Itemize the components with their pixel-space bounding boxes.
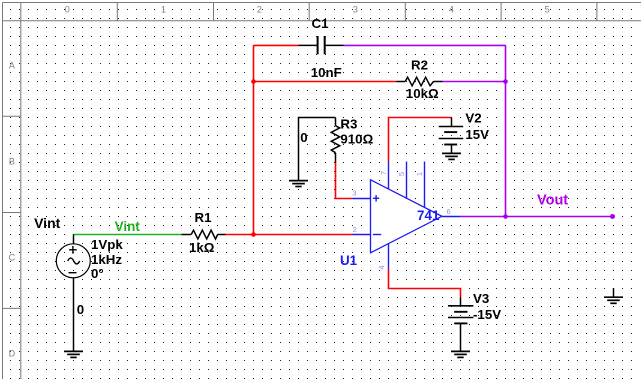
pin 2 lead <box>353 234 371 236</box>
svg-text:Vint: Vint <box>34 215 61 231</box>
svg-text:C1: C1 <box>312 16 330 31</box>
wire: purple output row <box>460 216 613 218</box>
svg-text:3: 3 <box>352 189 356 198</box>
svg-text:741: 741 <box>417 208 440 223</box>
svg-text:V2: V2 <box>465 111 481 126</box>
op-amp minus marker <box>373 234 381 236</box>
ground (R3 branch) <box>289 181 308 187</box>
source sine wave <box>68 258 80 264</box>
wire: red C1 row <box>254 44 299 46</box>
svg-text:R2: R2 <box>411 58 428 73</box>
op-amp U1 triangle <box>371 180 442 253</box>
pin 1 lead <box>424 162 426 208</box>
pin 3 lead <box>353 198 371 200</box>
floating ground (right) <box>604 288 623 303</box>
wire: red pin4 to V3 <box>389 269 461 298</box>
capacitor C1 <box>299 36 344 54</box>
svg-text:D: D <box>9 349 16 359</box>
resistor R2 <box>397 77 443 86</box>
svg-text:1: 1 <box>161 5 166 15</box>
wire: purple R2 right <box>443 81 506 83</box>
wire: green Vint net <box>74 234 182 236</box>
resistor R3 <box>331 118 339 163</box>
ground (under V3) <box>451 351 470 357</box>
svg-text:4: 4 <box>377 265 386 269</box>
svg-text:U1: U1 <box>340 253 358 268</box>
svg-text:10kΩ: 10kΩ <box>406 86 439 101</box>
svg-text:V3: V3 <box>473 291 489 306</box>
svg-text:2: 2 <box>257 5 262 15</box>
svg-text:5: 5 <box>545 5 550 15</box>
ground (under V2) <box>442 153 461 159</box>
svg-text:C: C <box>9 253 16 263</box>
svg-text:B: B <box>9 156 15 166</box>
svg-text:5: 5 <box>397 172 406 176</box>
svg-text:0: 0 <box>77 302 84 317</box>
svg-text:2: 2 <box>353 225 357 234</box>
svg-text:A: A <box>9 61 15 71</box>
svg-text:15V: 15V <box>465 127 489 142</box>
svg-text:Vout: Vout <box>537 193 568 209</box>
svg-text:1kΩ: 1kΩ <box>189 240 215 255</box>
battery V3 <box>448 297 473 351</box>
wire: purple C1 to right trunk <box>344 45 613 216</box>
source plus sign <box>69 249 77 251</box>
end dot Vout right end <box>610 214 615 219</box>
AC source circle <box>56 244 90 278</box>
svg-text:910Ω: 910Ω <box>340 132 373 147</box>
AC source Vint: top lead <box>73 235 75 245</box>
svg-text:3: 3 <box>353 5 358 15</box>
svg-text:R3: R3 <box>340 117 357 132</box>
wire: black R3 top to node 0 ground <box>299 118 336 181</box>
source minus sign <box>69 272 77 274</box>
svg-text:1Vpk: 1Vpk <box>91 237 123 252</box>
pin 7 lead <box>388 162 390 190</box>
junction dot purple/output <box>503 214 508 219</box>
wire: red left trunk vertical <box>226 45 461 297</box>
svg-text:7: 7 <box>379 171 388 175</box>
svg-text:0: 0 <box>300 130 307 145</box>
svg-text:R1: R1 <box>195 210 213 225</box>
svg-text:1kHz: 1kHz <box>91 252 122 267</box>
pin 5 lead <box>406 162 408 199</box>
svg-text:10nF: 10nF <box>311 65 342 80</box>
wire: source bottom to ground <box>73 278 75 352</box>
junction dot trunk/R2 row <box>251 79 256 84</box>
ruler zone numbers <box>9 5 550 359</box>
pin 4 lead <box>388 244 390 269</box>
battery V2 <box>439 118 464 154</box>
svg-text:6: 6 <box>447 207 451 216</box>
wire: red V2 to pin7 <box>389 118 452 162</box>
svg-text:-15V: -15V <box>473 307 501 322</box>
wire: red R2 row <box>254 81 397 83</box>
op-amp plus marker <box>373 197 379 199</box>
svg-text:0: 0 <box>65 5 70 15</box>
svg-text:1: 1 <box>415 172 424 176</box>
wire: red R3 bottom to pin3 <box>336 163 353 199</box>
svg-text:0°: 0° <box>91 266 104 281</box>
pin 6 lead <box>442 216 460 218</box>
wire: purple right trunk vertical <box>505 45 507 216</box>
junction dot purple/R2 <box>503 79 508 84</box>
ground (under source) <box>64 351 83 357</box>
junction dot trunk/input row <box>251 232 256 237</box>
svg-text:4: 4 <box>449 5 454 15</box>
svg-text:Vint: Vint <box>115 219 141 234</box>
resistor R1 <box>182 230 226 239</box>
wire: red input row to op-amp pin2 <box>226 234 353 236</box>
